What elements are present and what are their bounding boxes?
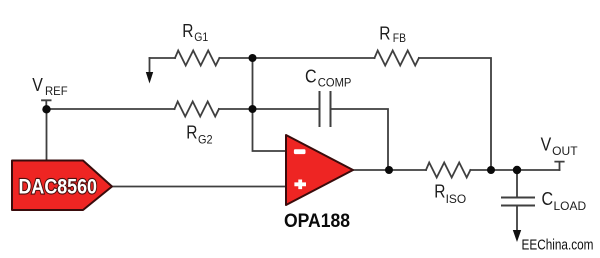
svg-text:G1: G1 xyxy=(194,30,208,44)
arrowhead ground below CLOAD xyxy=(513,230,521,242)
label RISO xyxy=(434,181,466,205)
wire mid junction to CCOMP left plate xyxy=(253,108,320,110)
svg-text:COMP: COMP xyxy=(318,76,352,90)
svg-text:R: R xyxy=(186,122,197,142)
wire top node to RFB xyxy=(253,57,375,59)
resistor RFB xyxy=(375,51,419,66)
label CLOAD xyxy=(542,188,587,213)
label VREF xyxy=(32,74,67,98)
svg-text:LOAD: LOAD xyxy=(554,199,587,213)
svg-text:G2: G2 xyxy=(198,132,213,146)
wire CLOAD top: VOUT node down to cap xyxy=(516,170,518,198)
label CCOMP xyxy=(305,66,351,90)
label VOUT xyxy=(541,133,579,158)
svg-text:EEChina.com: EEChina.com xyxy=(522,237,594,254)
label RFB xyxy=(379,24,406,46)
svg-text:C: C xyxy=(305,66,317,87)
wire VREF node down to DAC top xyxy=(46,109,48,161)
wire RISO to VOUT node xyxy=(470,169,559,171)
svg-text:V: V xyxy=(541,133,552,154)
terminal VOUT tick xyxy=(555,162,563,170)
wire top feedback line left segment xyxy=(150,57,176,59)
op-amp U1 OPA188 xyxy=(286,135,353,205)
wire VREF node to RG2 xyxy=(47,108,175,110)
wire RFB to right corner and down to output node xyxy=(419,58,491,170)
arrow stem at RG1 left (to ground) xyxy=(149,58,151,74)
svg-text:DAC8560: DAC8560 xyxy=(19,176,98,199)
svg-text:OUT: OUT xyxy=(552,144,578,158)
svg-text:ISO: ISO xyxy=(446,192,467,206)
wire RG2 to mid junction xyxy=(219,108,253,110)
arrowhead ground below RG1 xyxy=(146,72,153,84)
svg-text:R: R xyxy=(182,21,193,41)
svg-text:R: R xyxy=(379,24,390,44)
svg-text:C: C xyxy=(542,188,554,209)
svg-text:FB: FB xyxy=(393,31,406,45)
node mid junction x252 xyxy=(249,105,257,113)
node at top line x252 xyxy=(249,54,257,62)
svg-text:REF: REF xyxy=(45,84,68,98)
node op-amp output xyxy=(385,166,393,174)
wire inverting feedback: top node down and into op-amp minus input xyxy=(253,58,287,151)
wire CLOAD bottom to ground arrow xyxy=(516,206,518,232)
node RISO right / RFB down xyxy=(487,166,495,174)
resistor RG1 xyxy=(175,51,219,66)
wire DAC output to op-amp plus input xyxy=(112,186,286,188)
DAC8560 block xyxy=(12,161,112,211)
capacitor CCOMP xyxy=(320,92,331,126)
svg-text:OPA188: OPA188 xyxy=(284,211,350,232)
capacitor CLOAD xyxy=(502,198,534,206)
resistor RG2 xyxy=(175,102,219,117)
svg-text:V: V xyxy=(32,74,43,95)
svg-text:R: R xyxy=(434,181,445,201)
wire CCOMP right plate to corner and down to output node xyxy=(331,109,389,170)
label RG1 xyxy=(182,21,208,44)
label RG2 xyxy=(186,122,213,146)
node VREF xyxy=(42,105,50,113)
resistor RISO xyxy=(426,163,470,178)
wire op-amp output to RISO xyxy=(353,169,426,171)
node VOUT / CLOAD tap xyxy=(513,166,521,174)
wire RG1 to top node xyxy=(219,57,252,59)
terminal VREF tick xyxy=(42,100,51,105)
